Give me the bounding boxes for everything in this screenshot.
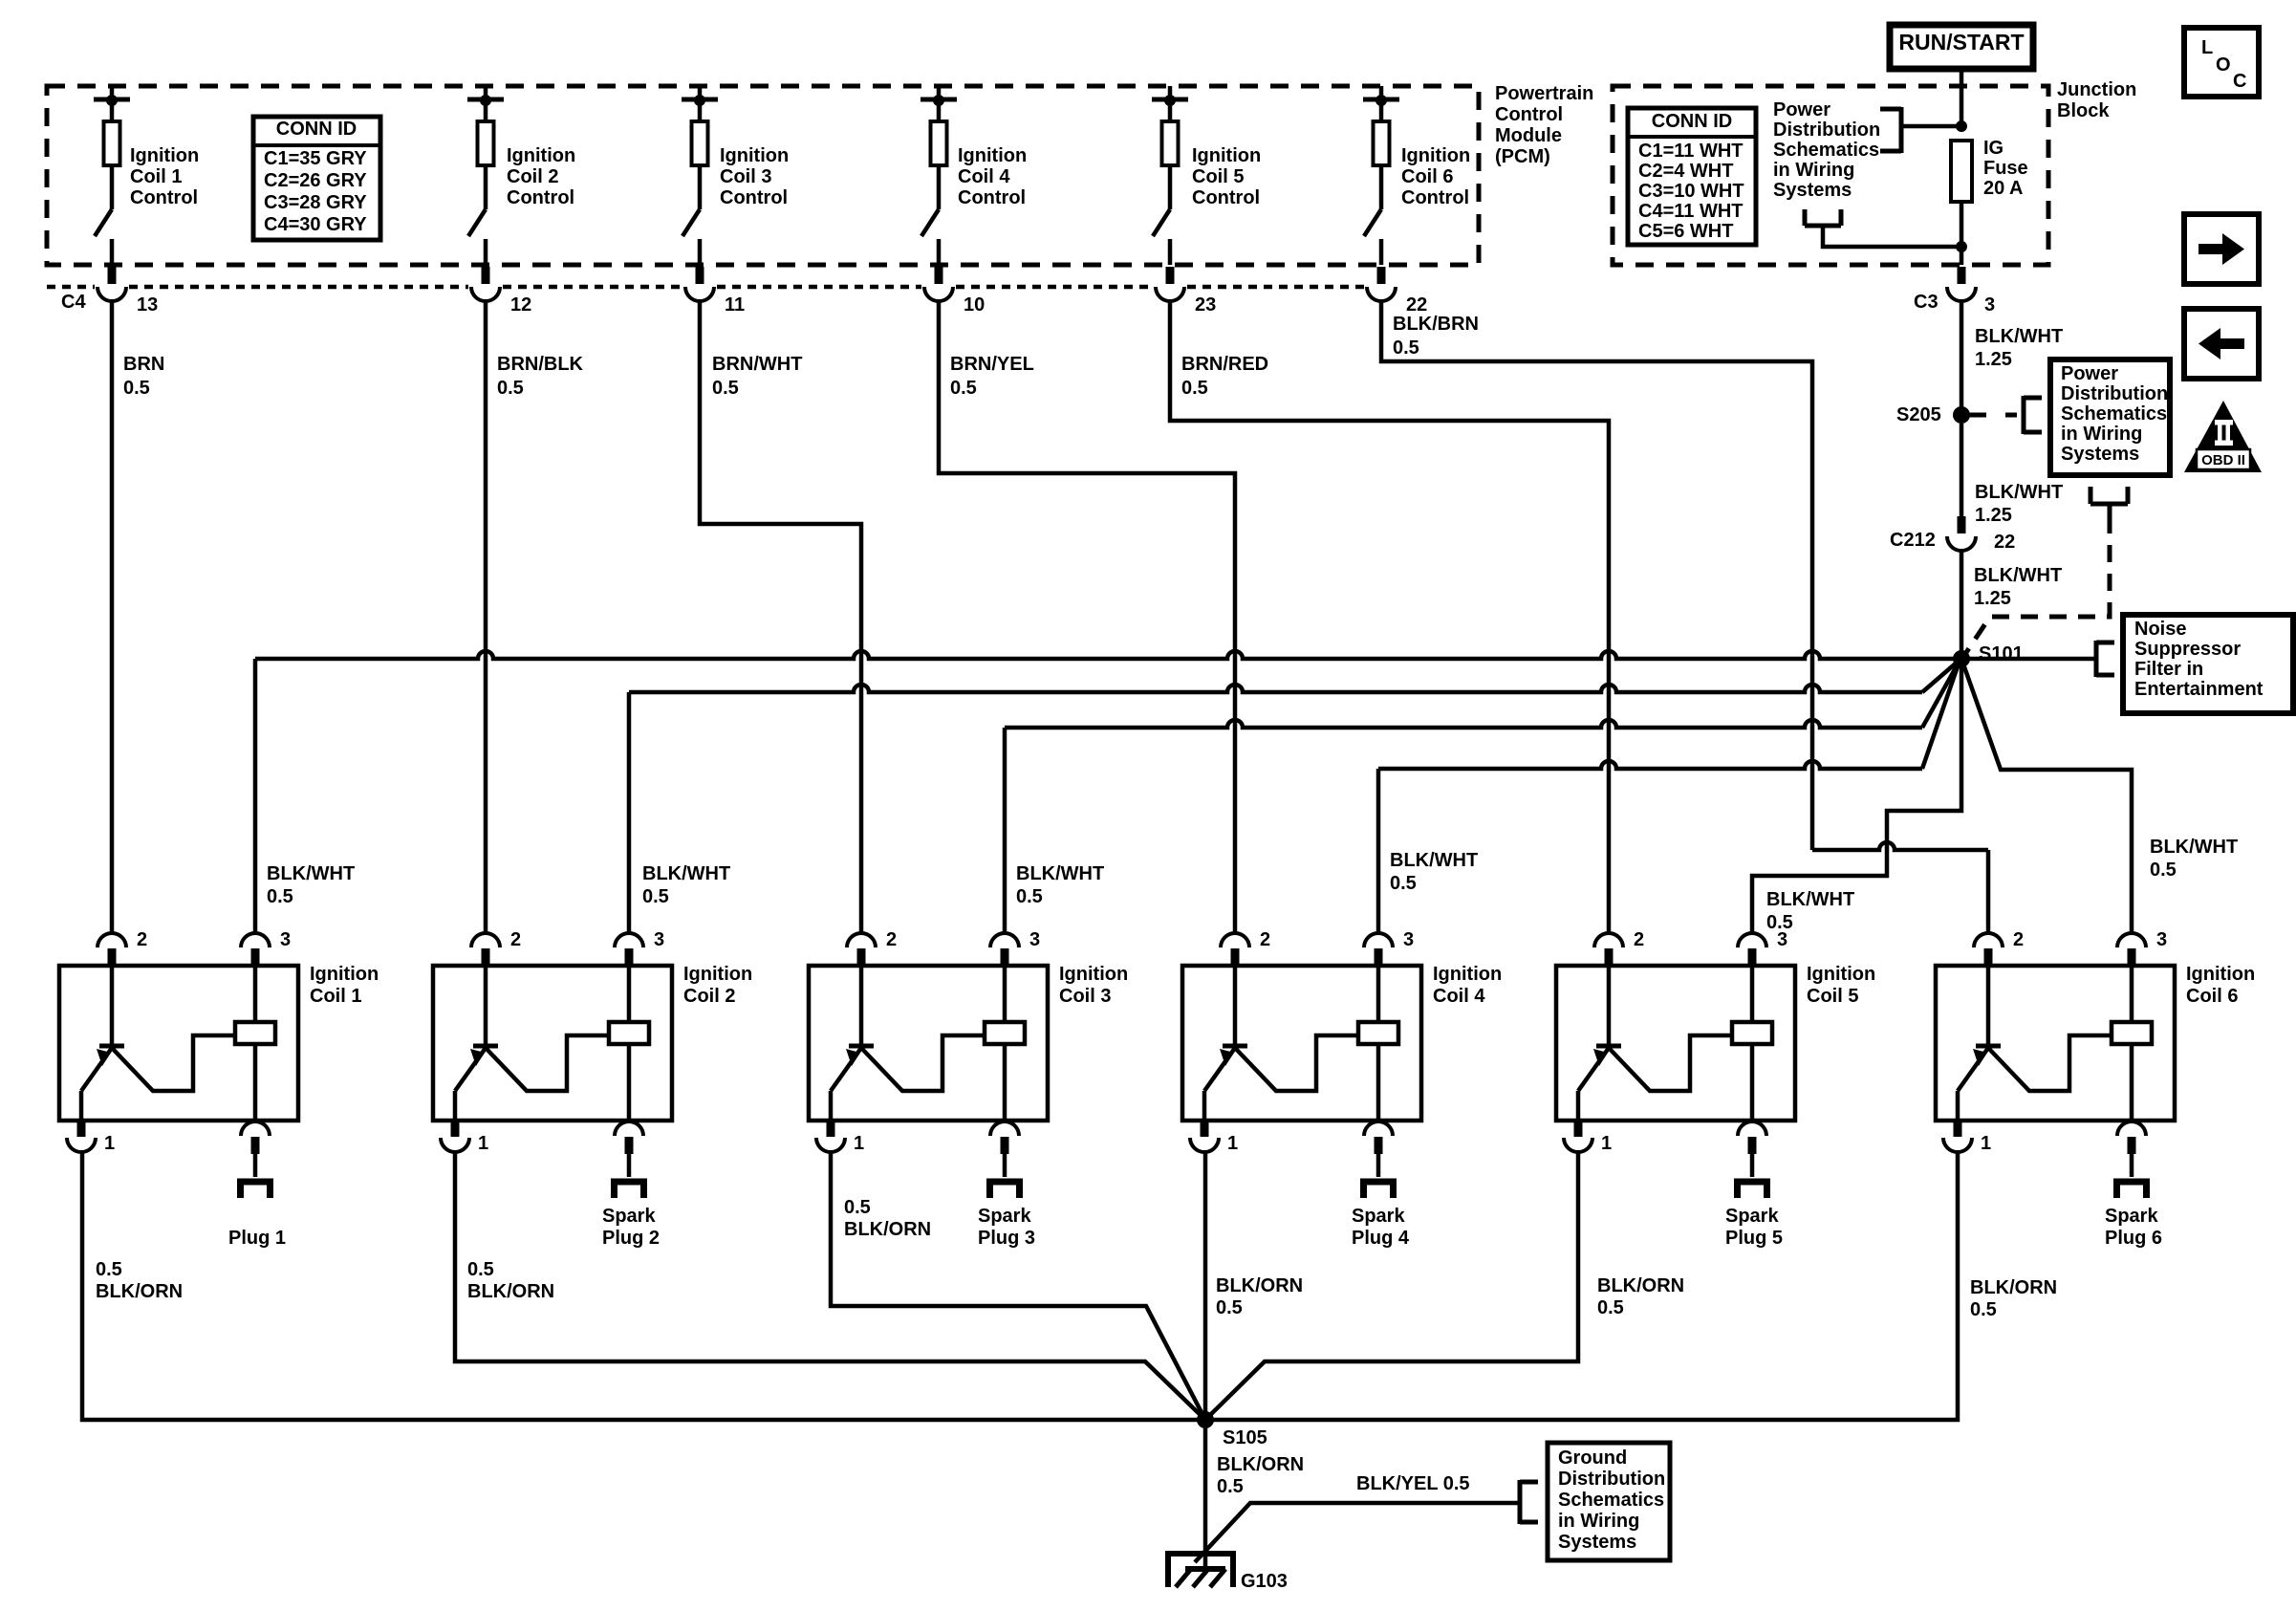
svg-text:S101: S101 bbox=[1979, 643, 2024, 664]
svg-text:BRN/BLK: BRN/BLK bbox=[497, 354, 584, 375]
coil 5 pin 1 connector bbox=[1564, 1121, 1612, 1154]
svg-text:Coil 5: Coil 5 bbox=[1192, 166, 1244, 187]
label C3 bbox=[1914, 292, 1939, 313]
label BLK/YEL 0.5 bbox=[1356, 1473, 1470, 1494]
svg-text:3: 3 bbox=[1777, 929, 1787, 950]
ignition coil 5 box bbox=[1556, 966, 1795, 1121]
svg-text:Ignition: Ignition bbox=[958, 145, 1027, 166]
coil 6 pin 2 connector bbox=[1974, 929, 2024, 966]
svg-text:BLK/WHT: BLK/WHT bbox=[1016, 863, 1104, 884]
svg-text:Plug 1: Plug 1 bbox=[228, 1228, 286, 1249]
label BLK/WHT 1.25 (below C212) bbox=[1974, 565, 2062, 609]
svg-text:C3=28 GRY: C3=28 GRY bbox=[264, 192, 367, 213]
transistor Q1 (coil 1 driver) bbox=[81, 966, 235, 1121]
svg-text:C4: C4 bbox=[61, 292, 86, 313]
svg-text:Spark: Spark bbox=[978, 1206, 1031, 1227]
wire BLK/WHT 1.25 from S205 to C212 bbox=[1960, 424, 1964, 533]
bus wire 4 BLK/WHT (S101 to coil 4 pin 3) bbox=[1378, 664, 1959, 769]
svg-text:Power: Power bbox=[1773, 99, 1830, 120]
svg-text:Systems: Systems bbox=[2061, 444, 2139, 465]
svg-text:0.5: 0.5 bbox=[123, 378, 150, 399]
svg-text:Systems: Systems bbox=[1773, 180, 1852, 201]
right arrow box bbox=[2184, 214, 2259, 284]
svg-text:3: 3 bbox=[654, 929, 664, 950]
spark plug 4 bbox=[1360, 1179, 1397, 1198]
label Spark Plug 5 bbox=[1725, 1206, 1783, 1249]
svg-text:0.5: 0.5 bbox=[844, 1197, 871, 1218]
svg-text:Block: Block bbox=[2057, 100, 2110, 121]
coil 2 pin 1 connector bbox=[441, 1121, 488, 1154]
svg-text:C: C bbox=[2233, 71, 2246, 92]
label BRN/YEL 0.5 bbox=[950, 354, 1034, 399]
svg-text:Spark: Spark bbox=[1352, 1206, 1405, 1227]
label BLK/ORN 0.5 (coil 6) bbox=[1970, 1277, 2057, 1320]
driver: Ignition Coil 2 Control (resistor + switch) in PCM bbox=[467, 86, 504, 265]
CONN ID table (Junction Block) bbox=[1628, 108, 1756, 245]
label BRN/BLK 0.5 bbox=[497, 354, 584, 399]
label Ignition Coil 2 bbox=[683, 964, 752, 1007]
reference bracket to Noise Suppressor bbox=[2096, 641, 2114, 677]
label Ignition Coil 6 Control bbox=[1401, 145, 1470, 208]
splice S101 bbox=[1953, 650, 1970, 667]
driver: Ignition Coil 1 Control (resistor + switch) in PCM bbox=[94, 86, 130, 265]
reference bracket at S205 bbox=[2024, 396, 2042, 434]
svg-text:Systems: Systems bbox=[1558, 1532, 1636, 1553]
svg-text:1: 1 bbox=[1227, 1133, 1238, 1154]
label Ignition Coil 2 Control bbox=[507, 145, 575, 208]
bus wire 3 BLK/WHT (S101 to coil 3 pin 3) bbox=[1005, 663, 1959, 728]
coil 4 primary winding bbox=[1358, 966, 1398, 1121]
wire BLK/YEL branch to ground distribution reference bbox=[1195, 1503, 1520, 1562]
label Power Distribution Schematics in Wiring Systems (junction block) bbox=[1773, 99, 1880, 201]
label BLK/WHT 0.5 (coil 4) bbox=[1390, 850, 1478, 894]
coil 5 pin 3 connector bbox=[1738, 929, 1787, 966]
label BLK/WHT 0.5 (coil 2) bbox=[642, 863, 730, 907]
svg-text:C212: C212 bbox=[1890, 530, 1936, 551]
svg-text:S105: S105 bbox=[1223, 1427, 1267, 1448]
svg-text:2: 2 bbox=[510, 929, 521, 950]
label BLK/WHT 1.25 (above C212) bbox=[1975, 482, 2063, 526]
svg-text:1: 1 bbox=[1981, 1133, 1991, 1154]
svg-text:0.5: 0.5 bbox=[96, 1259, 122, 1280]
ignition coil 4 box bbox=[1182, 966, 1421, 1121]
coil 6 pin 3 connector bbox=[2117, 929, 2167, 966]
transistor Q3 (coil 3 driver) bbox=[831, 966, 985, 1121]
svg-text:CONN ID: CONN ID bbox=[1652, 111, 1732, 132]
reference bracket to Ground Distribution box bbox=[1520, 1480, 1538, 1524]
label 22 (C212 pin) bbox=[1994, 532, 2015, 553]
reference half-box under Systems text bbox=[1805, 209, 1841, 226]
coil 1 spark plug output pin bbox=[241, 1121, 270, 1177]
svg-text:Coil 1: Coil 1 bbox=[310, 986, 361, 1007]
wire below fuse bbox=[1960, 202, 1964, 265]
ignition coil 2 box bbox=[433, 966, 672, 1121]
label BLK/BRN 0.5 bbox=[1393, 314, 1479, 359]
svg-text:BLK/ORN: BLK/ORN bbox=[467, 1281, 554, 1302]
label 0.5 BLK/ORN (coil 3) bbox=[844, 1197, 931, 1240]
svg-text:0.5: 0.5 bbox=[1393, 337, 1419, 359]
svg-text:0.5: 0.5 bbox=[1217, 1476, 1244, 1497]
svg-text:Ignition: Ignition bbox=[1401, 145, 1470, 166]
bus wire 2 BLK/WHT (S101 to coil 2 pin 3) bbox=[629, 662, 1958, 692]
label C4 bbox=[61, 292, 86, 313]
svg-text:in Wiring: in Wiring bbox=[1773, 160, 1854, 181]
svg-text:2: 2 bbox=[137, 929, 147, 950]
coil 3 pin 1 connector bbox=[816, 1121, 864, 1154]
svg-text:BLK/YEL 0.5: BLK/YEL 0.5 bbox=[1356, 1473, 1470, 1494]
svg-text:BLK/WHT: BLK/WHT bbox=[1766, 889, 1854, 910]
wire bracket to fuse node bbox=[1901, 124, 1961, 129]
label S105 bbox=[1223, 1427, 1267, 1448]
svg-text:2: 2 bbox=[886, 929, 897, 950]
svg-text:C1=35 GRY: C1=35 GRY bbox=[264, 148, 367, 169]
svg-text:BLK/WHT: BLK/WHT bbox=[1975, 482, 2063, 503]
svg-text:C4=30 GRY: C4=30 GRY bbox=[264, 214, 367, 235]
spark plug 6 bbox=[2113, 1179, 2150, 1198]
svg-text:Coil 5: Coil 5 bbox=[1807, 986, 1858, 1007]
svg-text:Coil 4: Coil 4 bbox=[1433, 986, 1485, 1007]
label Junction Block bbox=[2057, 79, 2136, 121]
label C212 bbox=[1890, 530, 1936, 551]
coil 4 pin 2 connector bbox=[1221, 929, 1270, 966]
svg-text:0.5: 0.5 bbox=[1597, 1297, 1624, 1318]
reference box Ground Distribution Schematics in Wiring Systems bbox=[1548, 1443, 1670, 1560]
svg-text:BRN: BRN bbox=[123, 354, 164, 375]
svg-text:0.5: 0.5 bbox=[950, 378, 977, 399]
svg-text:0.5: 0.5 bbox=[1390, 873, 1417, 894]
coil 1 pin 2 connector bbox=[97, 929, 147, 966]
svg-text:3: 3 bbox=[280, 929, 291, 950]
svg-text:0.5: 0.5 bbox=[1970, 1299, 1997, 1320]
ignition coil 1 box bbox=[59, 966, 298, 1121]
svg-text:Plug 3: Plug 3 bbox=[978, 1228, 1035, 1249]
wire BLK/ORN coil 6 pin 1 to S105 bbox=[1205, 1152, 1958, 1420]
connector C4 pin 23 bbox=[1156, 267, 1216, 316]
label Ignition Coil 5 Control bbox=[1192, 145, 1261, 208]
svg-text:C3=10 WHT: C3=10 WHT bbox=[1638, 181, 1744, 202]
wire BRN/WHT from C4 pin 11 to coil 3 pin 2 bbox=[700, 301, 861, 933]
label Ignition Coil 3 bbox=[1059, 964, 1128, 1007]
wire BLK/WHT 1.25 from C212 to S101 bbox=[1960, 551, 1964, 659]
coil 1 primary winding bbox=[235, 966, 275, 1121]
svg-text:0.5: 0.5 bbox=[467, 1259, 494, 1280]
coil 3 pin 3 connector bbox=[990, 929, 1040, 966]
RUN/START box bbox=[1890, 25, 2033, 69]
svg-text:Spark: Spark bbox=[1725, 1206, 1779, 1227]
svg-text:1: 1 bbox=[854, 1133, 864, 1154]
svg-text:BLK/WHT: BLK/WHT bbox=[642, 863, 730, 884]
label Ignition Coil 5 bbox=[1807, 964, 1875, 1007]
ground G103 bbox=[1168, 1551, 1233, 1587]
svg-text:Plug 4: Plug 4 bbox=[1352, 1228, 1410, 1249]
label IG Fuse 20 A bbox=[1983, 138, 2028, 199]
svg-text:Coil 2: Coil 2 bbox=[507, 166, 558, 187]
svg-text:C1=11 WHT: C1=11 WHT bbox=[1638, 141, 1743, 162]
label BRN/RED 0.5 bbox=[1181, 354, 1268, 399]
svg-text:C3: C3 bbox=[1914, 292, 1939, 313]
svg-text:in Wiring: in Wiring bbox=[1558, 1511, 1639, 1532]
svg-text:BLK/ORN: BLK/ORN bbox=[1597, 1275, 1684, 1296]
label Ignition Coil 1 Control bbox=[130, 145, 199, 208]
svg-text:BRN/YEL: BRN/YEL bbox=[950, 354, 1034, 375]
svg-text:12: 12 bbox=[510, 294, 531, 316]
coil 4 pin 1 connector bbox=[1190, 1121, 1238, 1154]
coil 2 pin 3 connector bbox=[615, 929, 664, 966]
dashed reference from S205 bbox=[1969, 413, 2017, 418]
svg-text:BLK/WHT: BLK/WHT bbox=[267, 863, 355, 884]
svg-text:0.5: 0.5 bbox=[712, 378, 739, 399]
connector C4 pin 11 bbox=[685, 267, 745, 316]
svg-text:Power: Power bbox=[2061, 363, 2118, 384]
svg-text:C5=6 WHT: C5=6 WHT bbox=[1638, 221, 1733, 242]
wire BLK/ORN coil 3 pin 1 to S105 bbox=[831, 1152, 1205, 1420]
svg-text:13: 13 bbox=[137, 294, 158, 316]
svg-text:Ignition: Ignition bbox=[130, 145, 199, 166]
svg-text:Distribution: Distribution bbox=[2061, 383, 2168, 404]
reference box Power Distribution Schematics in Wiring Systems bbox=[2050, 359, 2170, 475]
wire S101 to noise-suppressor bracket bbox=[1961, 657, 2096, 662]
svg-text:BLK/ORN: BLK/ORN bbox=[1217, 1454, 1304, 1475]
svg-text:Schematics: Schematics bbox=[1773, 140, 1879, 161]
label Spark Plug 2 bbox=[602, 1206, 660, 1249]
LOC legend box bbox=[2184, 28, 2259, 97]
svg-text:1: 1 bbox=[1601, 1133, 1612, 1154]
svg-text:Ignition: Ignition bbox=[1433, 964, 1502, 985]
coil 1 pin 1 connector bbox=[67, 1121, 115, 1154]
OBD II triangle symbol bbox=[2184, 401, 2262, 472]
dashed reference path from reference box to S101 bbox=[1965, 516, 2110, 654]
svg-text:Ignition: Ignition bbox=[683, 964, 752, 985]
IG fuse 20 A bbox=[1951, 141, 1972, 202]
label Powertrain Control Module (PCM) bbox=[1495, 83, 1593, 167]
driver: Ignition Coil 4 Control (resistor + switch) in PCM bbox=[921, 86, 957, 265]
wire BLK/ORN coil 5 pin 1 to S105 bbox=[1205, 1152, 1578, 1420]
ignition coil 6 box bbox=[1936, 966, 2175, 1121]
label BRN 0.5 bbox=[123, 354, 164, 399]
coil 2 primary winding bbox=[609, 966, 649, 1121]
connector C4 pin 10 bbox=[924, 267, 985, 316]
svg-text:Coil 4: Coil 4 bbox=[958, 166, 1010, 187]
svg-text:3: 3 bbox=[1984, 294, 1995, 316]
connector C4 pin 12 bbox=[471, 267, 531, 316]
coil 4 spark plug output pin bbox=[1364, 1121, 1393, 1177]
label 0.5 BLK/ORN (coil 2) bbox=[467, 1259, 554, 1302]
coil 4 pin 3 connector bbox=[1364, 929, 1414, 966]
svg-text:BLK/WHT: BLK/WHT bbox=[1975, 326, 2063, 347]
svg-text:2: 2 bbox=[1634, 929, 1644, 950]
label S101 bbox=[1979, 643, 2024, 664]
splice S205 bbox=[1953, 406, 1970, 424]
reference half-box under reference box bbox=[2090, 487, 2128, 516]
label Ignition Coil 3 Control bbox=[720, 145, 789, 208]
coil 6 spark plug output pin bbox=[2117, 1121, 2146, 1177]
junction dot below fuse bbox=[1956, 241, 1967, 252]
svg-text:Schematics: Schematics bbox=[2061, 403, 2167, 425]
svg-text:2: 2 bbox=[2013, 929, 2024, 950]
coil 5 primary winding bbox=[1732, 966, 1772, 1121]
svg-text:Coil 6: Coil 6 bbox=[2186, 986, 2238, 1007]
svg-text:Coil 6: Coil 6 bbox=[1401, 166, 1453, 187]
label G103 bbox=[1241, 1571, 1288, 1592]
svg-text:Ignition: Ignition bbox=[310, 964, 379, 985]
wire drop to coil 2 pin 3 bbox=[627, 692, 632, 933]
svg-text:Control: Control bbox=[1495, 104, 1563, 125]
driver: Ignition Coil 3 Control (resistor + switch) in PCM bbox=[682, 86, 718, 265]
label Spark Plug 4 bbox=[1352, 1206, 1410, 1249]
connector C4 pin 22 bbox=[1367, 267, 1427, 316]
svg-text:Schematics: Schematics bbox=[1558, 1490, 1664, 1511]
coil 3 primary winding bbox=[985, 966, 1025, 1121]
wire BRN/BLK from C4 pin 12 to coil 2 pin 2 bbox=[484, 301, 488, 933]
label Ignition Coil 6 bbox=[2186, 964, 2255, 1007]
ignition coil 3 box bbox=[809, 966, 1048, 1121]
svg-text:1.25: 1.25 bbox=[1975, 505, 2012, 526]
spark plug 2 bbox=[611, 1179, 647, 1198]
svg-text:Suppressor: Suppressor bbox=[2134, 639, 2241, 660]
transistor Q6 (coil 6 driver) bbox=[1958, 966, 2112, 1121]
coil 3 spark plug output pin bbox=[990, 1121, 1019, 1177]
splice S105 bbox=[1197, 1411, 1214, 1428]
connector C4 dotted harness line bbox=[47, 285, 1364, 290]
coil 5 pin 2 connector bbox=[1594, 929, 1644, 966]
coil 2 pin 2 connector bbox=[471, 929, 521, 966]
spark plug 3 bbox=[986, 1179, 1023, 1198]
svg-text:Module: Module bbox=[1495, 125, 1562, 146]
svg-text:Control: Control bbox=[130, 187, 198, 208]
svg-text:C2=4 WHT: C2=4 WHT bbox=[1638, 161, 1733, 182]
svg-text:Control: Control bbox=[720, 187, 788, 208]
svg-text:Coil 2: Coil 2 bbox=[683, 986, 735, 1007]
svg-text:in Wiring: in Wiring bbox=[2061, 424, 2142, 445]
svg-text:BLK/ORN: BLK/ORN bbox=[1216, 1275, 1303, 1296]
svg-text:Coil 3: Coil 3 bbox=[720, 166, 771, 187]
wire BLK/WHT 1.25 from C3 to S205 bbox=[1960, 301, 1964, 415]
transistor Q4 (coil 4 driver) bbox=[1204, 966, 1358, 1121]
svg-text:L: L bbox=[2201, 37, 2213, 58]
svg-text:0.5: 0.5 bbox=[1016, 886, 1043, 907]
Junction Block dashed box bbox=[1613, 86, 2048, 265]
reference bracket to Power Distribution text bbox=[1880, 107, 1901, 153]
svg-text:Filter in: Filter in bbox=[2134, 659, 2203, 680]
svg-text:OBD II: OBD II bbox=[2201, 452, 2245, 468]
wire BLK/WHT S101 to coil 5 pin 3 (stepped) bbox=[1752, 659, 1961, 933]
svg-text:Powertrain: Powertrain bbox=[1495, 83, 1593, 104]
svg-text:BRN/RED: BRN/RED bbox=[1181, 354, 1268, 375]
spark plug 5 bbox=[1734, 1179, 1770, 1198]
label Spark Plug 3 bbox=[978, 1206, 1035, 1249]
svg-text:1.25: 1.25 bbox=[1974, 588, 2011, 609]
label 0.5 BLK/ORN (coil 1) bbox=[96, 1259, 183, 1302]
label BLK/WHT 0.5 (coil 6) bbox=[2150, 837, 2238, 881]
label BRN/WHT 0.5 bbox=[712, 354, 802, 399]
svg-text:Control: Control bbox=[958, 187, 1026, 208]
svg-text:BLK/ORN: BLK/ORN bbox=[1970, 1277, 2057, 1298]
svg-text:Control: Control bbox=[507, 187, 574, 208]
svg-text:3: 3 bbox=[1029, 929, 1040, 950]
svg-text:Ignition: Ignition bbox=[720, 145, 789, 166]
svg-text:0.5: 0.5 bbox=[267, 886, 293, 907]
spark plug 1 bbox=[237, 1179, 273, 1198]
svg-text:BLK/WHT: BLK/WHT bbox=[2150, 837, 2238, 858]
wire BLK/ORN coil 4 pin 1 to S105 bbox=[1203, 1152, 1208, 1420]
svg-text:BLK/ORN: BLK/ORN bbox=[96, 1281, 183, 1302]
label BLK/WHT 0.5 (coil 1) bbox=[267, 863, 355, 907]
coil 1 pin 3 connector bbox=[241, 929, 291, 966]
svg-text:23: 23 bbox=[1195, 294, 1216, 316]
svg-text:C4=11 WHT: C4=11 WHT bbox=[1638, 201, 1743, 222]
wire BLK/WHT S101 to coil 6 pin 3 bbox=[1961, 659, 2132, 933]
label Ignition Coil 4 Control bbox=[958, 145, 1027, 208]
svg-text:3: 3 bbox=[2156, 929, 2167, 950]
driver: Ignition Coil 5 Control (resistor + switch) in PCM bbox=[1152, 86, 1188, 265]
svg-text:Control: Control bbox=[1401, 187, 1469, 208]
svg-text:10: 10 bbox=[964, 294, 985, 316]
svg-text:Fuse: Fuse bbox=[1983, 158, 2028, 179]
svg-text:0.5: 0.5 bbox=[642, 886, 669, 907]
svg-text:0.5: 0.5 bbox=[497, 378, 524, 399]
svg-text:22: 22 bbox=[1406, 294, 1427, 316]
connector C3 pin 3 bbox=[1947, 267, 1976, 301]
driver: Ignition Coil 6 Control (resistor + switch) in PCM bbox=[1363, 86, 1399, 265]
Powertrain Control Module (PCM) dashed box bbox=[47, 86, 1479, 265]
svg-text:Ignition: Ignition bbox=[1192, 145, 1261, 166]
svg-text:0.5: 0.5 bbox=[2150, 860, 2177, 881]
bus wire 1 BLK/WHT (S101 to coil 1 pin 3) bbox=[255, 651, 1961, 659]
label BLK/ORN 0.5 (S105 to ground) bbox=[1217, 1454, 1304, 1497]
coil 2 spark plug output pin bbox=[615, 1121, 643, 1177]
wire BLK/BRN from C4 pin 22 toward coil 6 pin 2 bbox=[1381, 301, 1988, 933]
svg-text:1: 1 bbox=[478, 1133, 488, 1154]
svg-text:Ground: Ground bbox=[1558, 1448, 1627, 1469]
coil 3 pin 2 connector bbox=[847, 929, 897, 966]
svg-text:Ignition: Ignition bbox=[1059, 964, 1128, 985]
svg-text:BLK/ORN: BLK/ORN bbox=[844, 1219, 931, 1240]
label BLK/WHT 0.5 (coil 3) bbox=[1016, 863, 1104, 907]
svg-text:Plug 2: Plug 2 bbox=[602, 1228, 660, 1249]
wire drop to coil 3 pin 3 bbox=[1003, 728, 1007, 933]
label BLK/WHT 0.5 (coil 5) bbox=[1766, 889, 1854, 933]
transistor Q5 (coil 5 driver) bbox=[1578, 966, 1732, 1121]
wire BRN/YEL from C4 pin 10 to coil 4 pin 2 bbox=[939, 301, 1235, 933]
label Spark Plug 6 bbox=[2105, 1206, 2162, 1249]
coil 6 primary winding bbox=[2112, 966, 2152, 1121]
connector C212 pin 22 bbox=[1947, 516, 1976, 551]
svg-text:Junction: Junction bbox=[2057, 79, 2136, 100]
wire drop to coil 4 pin 3 bbox=[1376, 769, 1381, 933]
label Spark Plug 1 bbox=[228, 1228, 286, 1249]
svg-text:20 A: 20 A bbox=[1983, 178, 2024, 199]
svg-text:Ignition: Ignition bbox=[1807, 964, 1875, 985]
svg-text:IG: IG bbox=[1983, 138, 2004, 159]
svg-text:S205: S205 bbox=[1896, 404, 1941, 425]
svg-text:Coil 3: Coil 3 bbox=[1059, 986, 1111, 1007]
svg-text:2: 2 bbox=[1260, 929, 1270, 950]
svg-text:11: 11 bbox=[725, 294, 745, 316]
svg-text:1: 1 bbox=[104, 1133, 115, 1154]
svg-text:CONN ID: CONN ID bbox=[276, 119, 357, 140]
svg-text:Coil 1: Coil 1 bbox=[130, 166, 182, 187]
svg-text:BLK/WHT: BLK/WHT bbox=[1974, 565, 2062, 586]
wire BRN from C4 pin 13 to coil 1 pin 2 bbox=[110, 301, 115, 933]
svg-text:22: 22 bbox=[1994, 532, 2015, 553]
svg-text:O: O bbox=[2216, 54, 2231, 76]
svg-text:Distribution: Distribution bbox=[1773, 120, 1880, 141]
coil 6 pin 1 connector bbox=[1943, 1121, 1991, 1154]
svg-text:0.5: 0.5 bbox=[1181, 378, 1208, 399]
svg-text:3: 3 bbox=[1403, 929, 1414, 950]
svg-text:G103: G103 bbox=[1241, 1571, 1288, 1592]
svg-text:1.25: 1.25 bbox=[1975, 349, 2012, 370]
